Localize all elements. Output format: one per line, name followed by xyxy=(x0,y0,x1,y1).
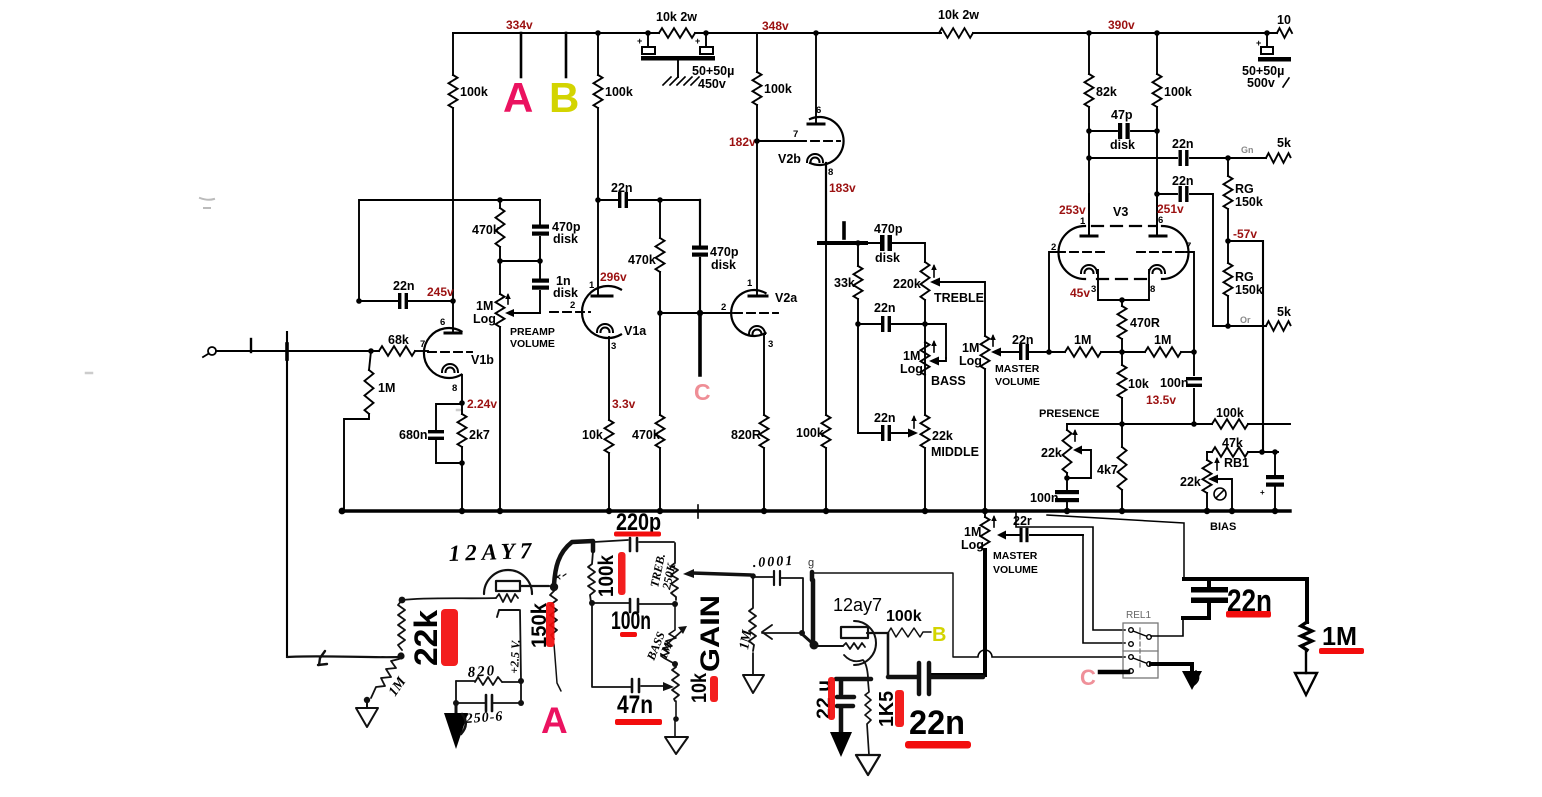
svg-text:470k: 470k xyxy=(632,428,660,442)
svg-text:3: 3 xyxy=(1091,284,1096,295)
wire: thick output run xyxy=(1184,579,1307,622)
svg-text:47k: 47k xyxy=(1222,436,1243,450)
resistor 150k (hand) xyxy=(550,591,557,639)
resistor 470k (second, to ground) xyxy=(659,313,661,510)
wire: 470k/470p junction row xyxy=(500,260,540,262)
capacitor 22n (Gn feed) xyxy=(1089,157,1266,159)
svg-text:820R: 820R xyxy=(731,428,761,442)
svg-text:Gn: Gn xyxy=(1241,145,1254,155)
tube V1a xyxy=(582,280,647,352)
wire: main B+ rail xyxy=(453,32,1277,34)
wire: V1a cathode lead xyxy=(608,337,610,420)
resistor 68k (grid stopper) xyxy=(379,346,415,356)
wire: main ground rail xyxy=(342,509,1290,512)
capacitor 100n (presence) xyxy=(1066,478,1068,511)
svg-text:68k: 68k xyxy=(388,333,409,347)
resistor 470k (V2a grid leak upper) xyxy=(659,200,661,313)
svg-text:500v: 500v xyxy=(1247,76,1275,90)
svg-text:22n: 22n xyxy=(909,704,965,742)
svg-text:PRESENCE: PRESENCE xyxy=(1039,408,1100,420)
svg-text:7: 7 xyxy=(1186,241,1191,252)
svg-text:22n: 22n xyxy=(1172,137,1194,151)
hand tick mark on input wire xyxy=(250,339,252,352)
svg-text:8: 8 xyxy=(452,383,457,394)
svg-text:7: 7 xyxy=(793,129,798,140)
wire: wiper to V1a grid (dashed) xyxy=(550,311,590,313)
svg-text:296v: 296v xyxy=(600,270,627,284)
ground (hollow triangle, hand) xyxy=(356,700,378,727)
svg-text:1M: 1M xyxy=(737,628,755,650)
svg-text:4k7: 4k7 xyxy=(1097,463,1118,477)
node A stub xyxy=(520,33,523,77)
potentiometer 1M Log MASTER VOLUME xyxy=(981,336,990,369)
svg-text:disk: disk xyxy=(875,251,900,265)
wire: V3 cathodes joined xyxy=(1098,270,1149,300)
capacitor 470p disk (tone slope) xyxy=(880,235,885,251)
potentiometer 22k MIDDLE xyxy=(921,415,930,448)
svg-text:disk: disk xyxy=(711,258,736,272)
svg-text:100k: 100k xyxy=(1216,406,1244,420)
wire: thin loop from g-node to B-box xyxy=(812,573,953,657)
svg-text:+: + xyxy=(1260,488,1265,497)
resistor 470k xyxy=(499,200,501,261)
capacitor 22n (Or feed) xyxy=(1157,194,1213,326)
svg-text:RB1: RB1 xyxy=(1224,456,1249,470)
potentiometer 220k TREBLE xyxy=(921,262,930,300)
svg-text:334v: 334v xyxy=(506,18,533,32)
tube 12ay7 (hand) xyxy=(854,621,876,665)
svg-text:2k7: 2k7 xyxy=(469,428,490,442)
resistor 820 (hand) xyxy=(475,677,502,685)
wire: V1b cathode xyxy=(461,375,463,403)
svg-text:470k: 470k xyxy=(628,253,656,267)
svg-text:2.24v: 2.24v xyxy=(467,397,497,411)
svg-text:-57v: -57v xyxy=(1233,227,1257,241)
svg-text:A: A xyxy=(503,74,533,121)
svg-text:22n: 22n xyxy=(1172,174,1194,188)
svg-text:253v: 253v xyxy=(1059,203,1086,217)
svg-text:150k: 150k xyxy=(1235,283,1263,297)
svg-text:Log: Log xyxy=(961,538,984,552)
tube V2b xyxy=(778,105,844,178)
svg-text:GAIN: GAIN xyxy=(695,595,725,672)
capacitor 50+50u 500v filter (right, truncated) xyxy=(1242,33,1291,90)
svg-text:22k: 22k xyxy=(1180,475,1201,489)
capacitor 250-6 (hand) xyxy=(486,695,492,711)
ground (hollow triangle bottom right) xyxy=(1295,673,1317,695)
svg-text:V1a: V1a xyxy=(624,324,647,338)
capacitor 470p disk xyxy=(539,200,541,261)
capacitor 100n xyxy=(1193,352,1195,424)
wire: -57v over to bias column xyxy=(1228,241,1263,452)
wire: C stub (thick) xyxy=(698,313,702,375)
resistor 5k (Or, truncated) xyxy=(1266,321,1291,331)
resistor 47k RB1 xyxy=(1207,451,1278,453)
resistor 22k (hand) xyxy=(398,600,405,650)
svg-text:BIAS: BIAS xyxy=(1210,521,1236,533)
resistor RG 150k (lower) xyxy=(1227,241,1229,326)
svg-text:100n: 100n xyxy=(1030,491,1059,505)
wire: relay feed 1 (from rail) xyxy=(1016,512,1125,630)
wire: thick plate run to 220p node xyxy=(554,541,593,585)
svg-text:100k: 100k xyxy=(886,608,922,625)
svg-text:1M: 1M xyxy=(903,349,920,363)
svg-text:10k: 10k xyxy=(688,673,711,703)
potentiometer 1M Log BASS xyxy=(921,342,930,375)
svg-text:82k: 82k xyxy=(1096,85,1117,99)
capacitor 1n disk xyxy=(539,261,541,313)
capacitor electrolytic (bias supply) xyxy=(1274,452,1276,511)
svg-text:2: 2 xyxy=(570,300,575,311)
capacitor 22n (middle) xyxy=(858,432,910,434)
svg-text:100k: 100k xyxy=(605,85,633,99)
resistor 1M (hand, diagonal) xyxy=(371,659,399,698)
resistor grid stopper (hand squiggle) xyxy=(496,594,518,602)
svg-text:MASTER: MASTER xyxy=(995,363,1040,375)
svg-text:RG: RG xyxy=(1235,270,1254,284)
cathode (hand) xyxy=(844,655,868,677)
svg-text:BASS: BASS xyxy=(931,374,966,388)
capacitor 22u electrolytic (hand) xyxy=(839,681,844,694)
svg-text:10k: 10k xyxy=(1128,377,1149,391)
resistor 5k (Gn, truncated) xyxy=(1266,153,1291,163)
svg-text:182v: 182v xyxy=(729,135,756,149)
svg-text:22n: 22n xyxy=(874,411,896,425)
svg-text:V1b: V1b xyxy=(471,353,494,367)
svg-text:100n: 100n xyxy=(611,607,651,635)
svg-text:MIDDLE: MIDDLE xyxy=(931,445,979,459)
resistor 10k 2w (third, truncated at right edge) xyxy=(1277,28,1292,38)
wire: relay C input (thick) xyxy=(1100,670,1128,675)
trimmer symbol xyxy=(1214,488,1226,500)
svg-text:245v: 245v xyxy=(427,285,454,299)
wire: V2a plate lead from 182v xyxy=(756,141,758,294)
resistor 100k (feedback) xyxy=(1212,419,1248,429)
svg-text:22n: 22n xyxy=(874,301,896,315)
svg-text:disk: disk xyxy=(553,286,578,300)
svg-text:47p: 47p xyxy=(1111,108,1133,122)
resistor 82k xyxy=(1088,33,1090,236)
wire: V2b cathode down xyxy=(825,163,827,243)
resistor 1M (left tail) xyxy=(1049,351,1145,353)
wire: V2b plate lead from rail xyxy=(815,33,817,122)
capacitor 22n (V1a plate coupling) xyxy=(598,199,700,201)
svg-text:13.5v: 13.5v xyxy=(1146,393,1176,407)
resistor 100k (hand) xyxy=(588,551,595,602)
red marker bar (150k) xyxy=(546,602,555,647)
tube V1b xyxy=(420,301,494,394)
svg-text:450v: 450v xyxy=(698,77,726,91)
tube 12AY7 (hand) xyxy=(484,570,532,594)
svg-text:22k: 22k xyxy=(932,429,953,443)
svg-text:1: 1 xyxy=(747,278,753,289)
svg-text:1M: 1M xyxy=(962,341,979,355)
svg-text:PREAMP: PREAMP xyxy=(510,326,555,338)
capacitor 680n xyxy=(436,404,462,463)
potentiometer 22k BIAS xyxy=(1206,452,1208,511)
svg-text:Log: Log xyxy=(959,354,982,368)
wire: thick node at 183v output xyxy=(819,241,866,245)
red marker bar (22k) xyxy=(441,609,458,666)
ground (hollow triangle, 1M pot) xyxy=(743,675,764,693)
wire: V3 grid pin7 xyxy=(1186,252,1194,352)
svg-text:7: 7 xyxy=(420,339,425,350)
svg-text:8: 8 xyxy=(1150,284,1155,295)
svg-text:470p: 470p xyxy=(710,245,739,259)
svg-text:100k: 100k xyxy=(460,85,488,99)
svg-text:1M: 1M xyxy=(964,525,981,539)
svg-text:820: 820 xyxy=(467,663,497,681)
resistor 100k (to B) xyxy=(888,628,931,637)
svg-text:22n: 22n xyxy=(611,181,633,195)
svg-text:100k: 100k xyxy=(796,426,824,440)
svg-text:390v: 390v xyxy=(1108,18,1135,32)
wire: relay top contact to 22n (bottom right) xyxy=(1151,617,1183,636)
svg-text:12AY7: 12AY7 xyxy=(448,538,536,566)
svg-text:A: A xyxy=(541,700,568,741)
wire: thick drop from g-node to grid blob xyxy=(812,572,813,641)
capacitor 22n (master volume tap) xyxy=(1000,351,1049,353)
svg-text:22n: 22n xyxy=(1012,333,1034,347)
svg-text:470k: 470k xyxy=(472,223,500,237)
svg-text:10: 10 xyxy=(1277,13,1291,27)
capacitor 47n (hand) xyxy=(632,679,639,692)
wire: plate down to hand 22n xyxy=(887,633,890,677)
svg-text:disk: disk xyxy=(553,232,578,246)
svg-text:+: + xyxy=(695,36,700,46)
svg-text:250-6: 250-6 xyxy=(464,709,504,727)
wire: 22n feedback loop xyxy=(359,200,540,301)
wire: presence row xyxy=(1067,423,1290,425)
potentiometer 1M Log MASTER VOLUME (second) xyxy=(984,511,986,517)
wire: V2a cathode xyxy=(763,334,765,415)
node B stub xyxy=(565,33,568,77)
resistor 1M (output, hand) xyxy=(1301,622,1312,650)
input jack xyxy=(208,347,216,355)
faint artifacts xyxy=(200,198,214,208)
ground (solid arrow at relay) xyxy=(1182,671,1202,690)
capacitor 22r xyxy=(1005,534,1083,536)
svg-text:B: B xyxy=(932,624,946,646)
svg-text:1M: 1M xyxy=(1074,333,1091,347)
wire: relay lower contact to ground arrow xyxy=(1151,664,1192,673)
svg-text:VOLUME: VOLUME xyxy=(995,376,1040,388)
resistor 1M (grid leak) xyxy=(344,351,371,510)
svg-text:22k: 22k xyxy=(1041,446,1062,460)
small hand marks x xyxy=(555,574,566,579)
resistor 33k xyxy=(857,243,859,433)
resistor 820R xyxy=(760,415,769,448)
svg-text:MASTER: MASTER xyxy=(993,550,1038,562)
svg-text:6: 6 xyxy=(1158,215,1163,226)
potentiometer 10k GAIN (hand) xyxy=(672,664,679,701)
svg-text:183v: 183v xyxy=(829,181,856,195)
svg-text:Log: Log xyxy=(900,362,923,376)
svg-text:3.3v: 3.3v xyxy=(612,397,636,411)
svg-text:.0001: .0001 xyxy=(752,554,794,571)
svg-text:g: g xyxy=(808,557,814,569)
svg-text:3: 3 xyxy=(768,339,773,350)
potentiometer 1M Log PREAMP VOLUME xyxy=(499,261,501,510)
resistor grid stopper (hand) xyxy=(843,643,865,649)
relay REL1 xyxy=(1123,623,1158,678)
capacitor .0001 (hand) xyxy=(774,571,780,585)
capacitor 22n (V1b plate to loop) xyxy=(398,293,408,309)
svg-text:C: C xyxy=(1080,665,1096,690)
potentiometer 22k PRESENCE xyxy=(1066,424,1068,478)
wire: thin link from rail to output run xyxy=(1047,515,1184,577)
svg-text:6: 6 xyxy=(440,317,445,328)
svg-text:100k: 100k xyxy=(764,82,792,96)
wire: cathode down xyxy=(520,610,521,680)
wire: MV2 lower leg (thick) to hand cap xyxy=(933,550,985,675)
svg-text:2: 2 xyxy=(721,302,726,313)
svg-text:REL1: REL1 xyxy=(1126,610,1151,621)
svg-text:10k: 10k xyxy=(582,428,603,442)
wire: grid wire to tube xyxy=(402,598,496,600)
resistor 100k (V2b plate, x=757) xyxy=(756,33,758,141)
hand mark on wire xyxy=(318,651,327,665)
svg-text:Or: Or xyxy=(1240,315,1251,325)
svg-text:100n: 100n xyxy=(1160,376,1189,390)
node Or xyxy=(1213,325,1266,327)
junction dots on rail xyxy=(595,30,1270,36)
resistor 100k (V3 right plate) xyxy=(1156,33,1158,236)
ground (solid arrow, 22u) xyxy=(830,732,852,757)
tube V3 xyxy=(1051,194,1191,295)
svg-text:1M: 1M xyxy=(386,674,410,699)
svg-text:1: 1 xyxy=(1080,216,1086,227)
resistor 1K5 (hand) xyxy=(865,681,871,755)
svg-text:+2.5 V.: +2.5 V. xyxy=(507,639,523,674)
svg-text:1M: 1M xyxy=(1322,621,1357,651)
svg-text:disk: disk xyxy=(1110,138,1135,152)
resistor 100k (V1a plate, x=598) xyxy=(597,33,599,200)
svg-text:100k: 100k xyxy=(595,555,618,597)
wire: V2a grid row xyxy=(660,312,732,314)
svg-text:B: B xyxy=(549,74,579,121)
svg-text:VOLUME: VOLUME xyxy=(993,564,1038,576)
svg-text:100k: 100k xyxy=(1164,85,1192,99)
svg-text:3: 3 xyxy=(611,341,616,352)
ground (hollow triangle, 1K5) xyxy=(856,755,880,775)
svg-text:V2b: V2b xyxy=(778,152,801,166)
resistor 1M (right tail) xyxy=(1145,347,1181,357)
wire: plate out xyxy=(867,632,888,634)
resistor 100k (V1b plate, x=453) xyxy=(452,33,454,301)
svg-text:33k: 33k xyxy=(834,276,855,290)
svg-text:10k 2w: 10k 2w xyxy=(656,10,697,24)
svg-text:VOLUME: VOLUME xyxy=(510,338,555,350)
wire: relay feed 2 (from 22r) xyxy=(1083,535,1125,643)
svg-text:12ay7: 12ay7 xyxy=(833,595,882,615)
resistor 10k (V1a cathode) xyxy=(605,420,614,453)
resistor 10k 2w (first) xyxy=(659,28,695,38)
wire: grid blob to grid resistor xyxy=(817,645,843,647)
capacitor 470p disk (second) xyxy=(699,200,701,313)
resistor RG 150k (upper) xyxy=(1227,158,1229,241)
svg-text:1K5: 1K5 xyxy=(876,691,898,727)
svg-text:6: 6 xyxy=(816,105,821,116)
svg-text:45v: 45v xyxy=(1070,286,1090,300)
svg-text:22n: 22n xyxy=(393,279,415,293)
svg-text:V3: V3 xyxy=(1113,205,1128,219)
wire: V1a plate lead xyxy=(597,200,599,294)
svg-text:10k 2w: 10k 2w xyxy=(938,8,979,22)
svg-text:220k: 220k xyxy=(893,277,921,291)
capacitor 22n (bass) xyxy=(858,324,946,358)
resistor 4k7 xyxy=(1121,424,1123,511)
svg-text:150k: 150k xyxy=(1235,195,1263,209)
resistor 10k 2w (second) xyxy=(939,28,973,38)
capacitor 22n (output, bottom right) xyxy=(1191,587,1228,593)
svg-text:47n: 47n xyxy=(617,691,653,719)
svg-text:680n: 680n xyxy=(399,428,428,442)
tube V2a xyxy=(721,278,798,350)
svg-text:RG: RG xyxy=(1235,182,1254,196)
wire: relay feed 3 (from B box) with hop xyxy=(954,650,1125,657)
capacitor 100n (hand) xyxy=(630,599,638,612)
wire: 182v to V2b grid xyxy=(757,140,798,142)
cathode (hand) xyxy=(497,610,519,617)
potentiometer TREB 250k (hand) xyxy=(671,543,678,600)
stray mark xyxy=(842,223,846,238)
svg-text:1M: 1M xyxy=(476,299,493,313)
wire: long hand-drawn run down-left xyxy=(286,332,288,657)
svg-text:470p: 470p xyxy=(874,222,903,236)
wire: input to grid xyxy=(216,350,379,352)
svg-text:TREBLE: TREBLE xyxy=(934,291,984,305)
svg-text:1M: 1M xyxy=(378,381,395,395)
resistor 10k (tail) xyxy=(1121,352,1123,424)
svg-text:+: + xyxy=(637,36,642,46)
capacitor 22n (hand, tall bars) xyxy=(888,663,983,694)
resistor 2k7 xyxy=(461,403,463,510)
svg-text:C: C xyxy=(694,379,711,405)
svg-text:8: 8 xyxy=(828,167,833,178)
potentiometer BASS 1M (hand diagonal) xyxy=(661,604,676,664)
svg-text:348v: 348v xyxy=(762,19,789,33)
svg-text:V2a: V2a xyxy=(775,291,798,305)
svg-text:1M: 1M xyxy=(1154,333,1171,347)
wire: V3 grid pin2 xyxy=(1049,252,1057,352)
capacitor 220p (hand) xyxy=(630,538,637,551)
ground (hollow triangle, gain pot) xyxy=(665,737,688,754)
wiper arrow TREB + thick wire to .0001 xyxy=(692,573,751,575)
potentiometer 1M (hand) xyxy=(749,577,756,651)
svg-text:5k: 5k xyxy=(1277,305,1291,319)
resistor 100k (V2b cathode load) xyxy=(825,243,827,510)
resistor 470R xyxy=(1121,300,1123,352)
svg-text:22k: 22k xyxy=(408,610,444,666)
ground (solid arrow, hand) xyxy=(455,703,458,715)
wire: y=657 run to 22k xyxy=(287,655,400,658)
cathode bar (thick) xyxy=(836,677,871,682)
capacitor 50+50u 450v filter (left) xyxy=(637,33,734,91)
svg-text:Log: Log xyxy=(473,312,496,326)
svg-text:50+50µ: 50+50µ xyxy=(692,64,734,78)
svg-text:470R: 470R xyxy=(1130,316,1160,330)
capacitor 47p disk xyxy=(1089,130,1157,132)
svg-text:5k: 5k xyxy=(1277,136,1291,150)
svg-text:251v: 251v xyxy=(1157,202,1184,216)
wire: plate to node (hand) xyxy=(520,585,549,587)
